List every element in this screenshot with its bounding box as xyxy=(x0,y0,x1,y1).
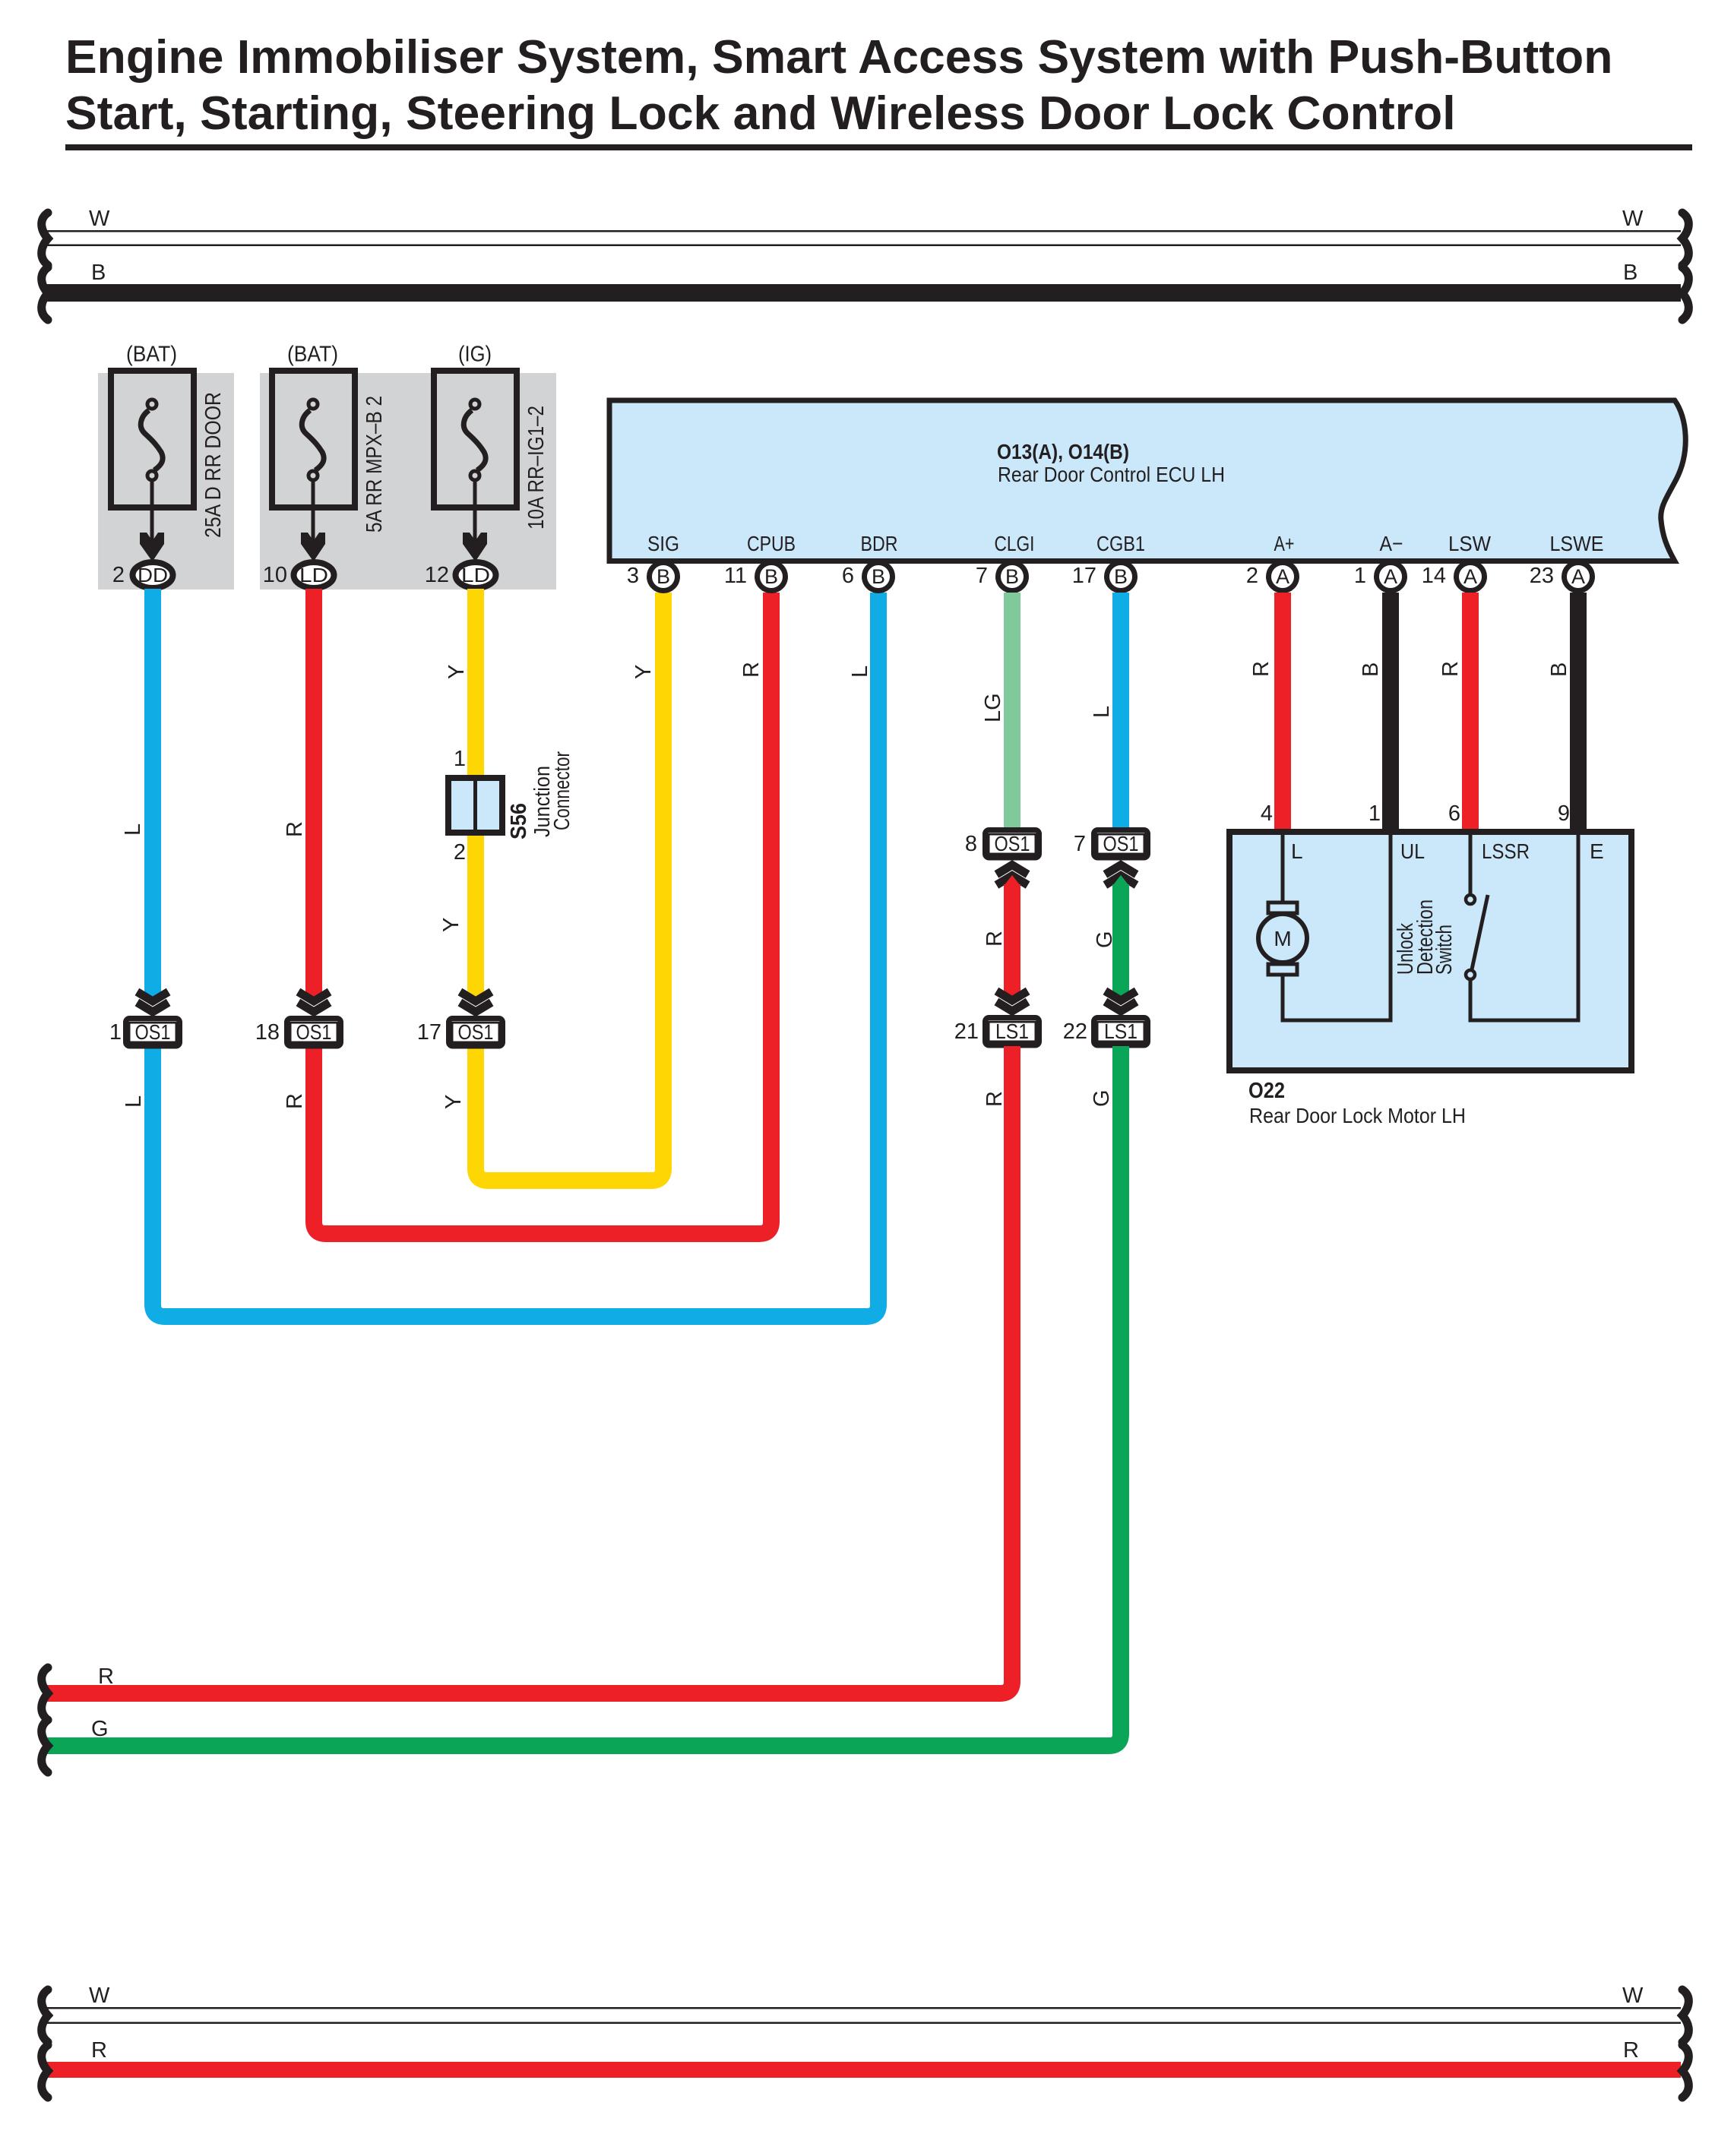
svg-text:A: A xyxy=(1463,565,1477,588)
svg-text:25A D RR DOOR: 25A D RR DOOR xyxy=(201,392,226,538)
wire G green OS1 7 to LS1 22 xyxy=(1112,875,1129,1002)
svg-text:CPUB: CPUB xyxy=(747,532,796,555)
wire B top xyxy=(46,284,1681,302)
pin 14 A LSW xyxy=(1422,563,1485,591)
fuse block background left xyxy=(98,373,234,590)
wire L blue from fuse1 to OS1 xyxy=(144,589,161,1003)
break symbol top-left B xyxy=(42,267,48,320)
svg-text:2: 2 xyxy=(454,840,466,865)
svg-text:7: 7 xyxy=(1074,832,1086,856)
break symbol top-right B xyxy=(1682,267,1688,320)
svg-text:Connector: Connector xyxy=(550,751,574,830)
svg-text:1: 1 xyxy=(109,1020,122,1045)
break symbol bottom-left W xyxy=(42,1990,48,2042)
svg-text:W: W xyxy=(89,1984,110,2008)
svg-text:2: 2 xyxy=(112,563,125,587)
pin 7 B CLGI xyxy=(976,563,1027,591)
svg-text:Rear Door Control ECU LH: Rear Door Control ECU LH xyxy=(998,463,1225,486)
svg-text:R: R xyxy=(1249,661,1274,677)
svg-text:W: W xyxy=(89,207,110,231)
svg-text:A: A xyxy=(1384,565,1397,588)
svg-text:Engine Immobiliser System, Sma: Engine Immobiliser System, Smart Access … xyxy=(65,30,1612,84)
svg-text:L: L xyxy=(1090,706,1114,718)
svg-text:O13(A), O14(B): O13(A), O14(B) xyxy=(997,440,1129,463)
svg-text:CGB1: CGB1 xyxy=(1096,532,1145,555)
connector 1 OS1 xyxy=(109,992,180,1047)
svg-text:9: 9 xyxy=(1558,801,1570,826)
svg-text:Y: Y xyxy=(445,665,469,679)
svg-text:22: 22 xyxy=(1063,1020,1087,1044)
svg-text:Switch: Switch xyxy=(1432,925,1457,975)
wire R red lower run to CPUB xyxy=(314,593,771,1234)
svg-text:Y: Y xyxy=(439,918,464,932)
svg-text:B: B xyxy=(1359,662,1383,677)
svg-text:OS1: OS1 xyxy=(296,1020,332,1044)
svg-text:G: G xyxy=(1093,931,1117,948)
svg-text:LS1: LS1 xyxy=(995,1020,1029,1043)
svg-text:SIG: SIG xyxy=(647,532,679,555)
svg-text:B: B xyxy=(764,565,778,588)
wire R red LSW to motor xyxy=(1462,593,1479,829)
fuse F3 10A RR-IG1-2 xyxy=(434,343,549,561)
svg-text:Start, Starting, Steering Lock: Start, Starting, Steering Lock and Wirel… xyxy=(65,87,1456,140)
svg-text:LSSR: LSSR xyxy=(1482,839,1530,863)
svg-text:LG: LG xyxy=(981,693,1005,722)
svg-text:G: G xyxy=(1090,1089,1114,1107)
svg-text:B: B xyxy=(91,261,106,285)
svg-text:R: R xyxy=(982,1091,1007,1107)
svg-text:6: 6 xyxy=(1448,801,1460,826)
svg-text:(BAT): (BAT) xyxy=(126,343,177,367)
svg-text:6: 6 xyxy=(842,564,854,588)
wire B black A- to motor xyxy=(1382,593,1399,829)
pin 1 A A- xyxy=(1354,563,1405,591)
svg-text:L: L xyxy=(848,665,872,678)
svg-text:B: B xyxy=(872,565,885,588)
svg-text:8: 8 xyxy=(965,832,977,856)
wire R red from fuse2 to OS1 xyxy=(305,589,322,1003)
svg-text:B: B xyxy=(1005,565,1019,588)
svg-text:OS1: OS1 xyxy=(1103,832,1139,855)
svg-text:B: B xyxy=(1623,261,1637,285)
wire pin6 LSSR to switch xyxy=(1469,832,1473,895)
break symbol bottom-right W xyxy=(1682,1990,1688,2042)
svg-text:DD: DD xyxy=(138,564,168,586)
pin 23 A LSWE xyxy=(1530,563,1593,591)
title xyxy=(65,30,1692,150)
wire Y yellow from fuse3 through S56 to OS1 xyxy=(467,589,484,1003)
svg-text:1: 1 xyxy=(1354,564,1366,588)
break symbol top-left W xyxy=(42,213,48,265)
svg-text:10A RR–IG1–2: 10A RR–IG1–2 xyxy=(524,406,549,530)
break symbol bottom-right R xyxy=(1682,2045,1688,2098)
wire Y yellow lower run to SIG xyxy=(476,593,663,1181)
motor box O22 Rear Door Lock Motor LH xyxy=(1229,801,1631,1070)
wire R red A+ to motor xyxy=(1274,593,1291,829)
wire motor bottom rail xyxy=(1281,1019,1393,1023)
connector 22 LS1 xyxy=(1063,991,1148,1046)
fuse block background right xyxy=(260,373,556,590)
svg-text:A+: A+ xyxy=(1274,532,1295,555)
connector 2 DD xyxy=(112,562,173,588)
svg-text:(IG): (IG) xyxy=(458,343,492,367)
wire L blue lower run to BDR xyxy=(153,593,878,1317)
svg-text:E: E xyxy=(1590,839,1604,863)
ECU box O13 O14 Rear Door Control ECU LH xyxy=(609,400,1685,561)
svg-text:LSWE: LSWE xyxy=(1550,532,1604,555)
wire pin4 L to motor xyxy=(1281,832,1285,904)
svg-text:S56: S56 xyxy=(507,803,531,839)
svg-text:11: 11 xyxy=(724,564,747,588)
connector 12 LD xyxy=(425,562,496,588)
svg-text:5A RR MPX–B 2: 5A RR MPX–B 2 xyxy=(362,396,387,533)
wire L from CGB1 to OS1 7 xyxy=(1112,593,1129,830)
wire W bottom xyxy=(46,2007,1681,2024)
wire rail to pin1 UL xyxy=(1389,832,1393,1023)
connector 21 LS1 xyxy=(954,991,1039,1046)
break symbol bottom-left R xyxy=(42,2045,48,2098)
svg-text:A−: A− xyxy=(1380,532,1403,555)
wire B black LSWE to motor xyxy=(1570,593,1587,829)
svg-text:7: 7 xyxy=(976,564,988,588)
svg-text:4: 4 xyxy=(1261,801,1273,826)
connector 17 OS1 xyxy=(417,992,503,1047)
svg-text:LD: LD xyxy=(299,564,328,586)
svg-text:Rear Door Lock Motor LH: Rear Door Lock Motor LH xyxy=(1249,1104,1466,1127)
svg-text:R: R xyxy=(91,2038,107,2063)
svg-text:10: 10 xyxy=(263,563,287,587)
wire R red LS1 21 down to bottom run xyxy=(47,1046,1012,1693)
wire G green LS1 22 down to bottom run xyxy=(47,1046,1121,1746)
svg-text:LD: LD xyxy=(461,564,490,586)
fuse F2 5A RR MPX-B 2 xyxy=(272,343,387,561)
break symbol R bottom-left xyxy=(42,1668,48,1720)
svg-text:W: W xyxy=(1622,1984,1644,2008)
svg-text:18: 18 xyxy=(255,1020,280,1045)
svg-text:R: R xyxy=(98,1664,114,1689)
svg-text:R: R xyxy=(982,931,1007,947)
svg-text:L: L xyxy=(1291,839,1303,863)
wire switch to bottom rail xyxy=(1469,979,1473,1023)
break symbol G bottom-left xyxy=(42,1720,48,1772)
svg-text:21: 21 xyxy=(954,1020,979,1044)
svg-text:1: 1 xyxy=(1369,801,1381,826)
svg-text:Y: Y xyxy=(631,665,656,679)
pin 2 A A+ xyxy=(1246,563,1297,591)
svg-text:B: B xyxy=(657,565,670,588)
svg-text:UL: UL xyxy=(1400,839,1425,863)
svg-text:OS1: OS1 xyxy=(135,1020,171,1044)
motor M xyxy=(1258,903,1307,975)
svg-text:A: A xyxy=(1571,565,1585,588)
wire R bottom xyxy=(46,2062,1681,2078)
svg-text:Y: Y xyxy=(441,1095,466,1109)
connector 18 OS1 xyxy=(255,992,341,1047)
svg-text:M: M xyxy=(1274,927,1291,950)
pin 3 B SIG xyxy=(627,563,678,591)
svg-text:L: L xyxy=(122,1095,146,1108)
svg-text:17: 17 xyxy=(1072,564,1096,588)
svg-text:CLGI: CLGI xyxy=(995,532,1035,555)
svg-text:LSW: LSW xyxy=(1448,532,1492,555)
pin 17 B CGB1 xyxy=(1072,563,1135,591)
svg-text:12: 12 xyxy=(425,563,449,587)
connector 10 LD xyxy=(263,562,334,588)
svg-text:R: R xyxy=(1623,2038,1639,2063)
svg-text:R: R xyxy=(283,1093,307,1109)
svg-text:O22: O22 xyxy=(1248,1079,1285,1103)
svg-text:W: W xyxy=(1622,207,1644,231)
svg-text:R: R xyxy=(283,821,307,837)
connector 7 OS1 xyxy=(1074,830,1148,886)
svg-text:BDR: BDR xyxy=(861,532,898,555)
svg-text:23: 23 xyxy=(1530,564,1554,588)
pin 6 B BDR xyxy=(842,563,893,591)
unlock detection switch xyxy=(1394,895,1488,979)
connector 8 OS1 xyxy=(965,830,1039,886)
fuse F1 25A D RR DOOR xyxy=(111,343,226,561)
svg-text:3: 3 xyxy=(627,564,639,588)
wire LG from CLGI to OS1 8 xyxy=(1004,593,1020,830)
wire R red OS1 8 to LS1 21 xyxy=(1004,875,1020,1002)
wire motor to bottom rail xyxy=(1281,973,1285,1023)
svg-text:LS1: LS1 xyxy=(1104,1020,1138,1043)
svg-text:B: B xyxy=(1547,662,1571,677)
svg-text:A: A xyxy=(1276,565,1289,588)
svg-text:17: 17 xyxy=(417,1020,441,1045)
wire switch bottom rail xyxy=(1469,1019,1581,1023)
svg-text:OS1: OS1 xyxy=(458,1020,494,1044)
svg-text:R: R xyxy=(1438,661,1463,677)
svg-text:R: R xyxy=(739,662,764,678)
svg-text:OS1: OS1 xyxy=(995,832,1030,855)
svg-text:(BAT): (BAT) xyxy=(287,343,338,367)
wire rail to pin9 E xyxy=(1577,832,1581,1023)
svg-text:B: B xyxy=(1114,565,1128,588)
svg-text:1: 1 xyxy=(454,747,466,771)
svg-text:L: L xyxy=(121,824,145,836)
svg-text:14: 14 xyxy=(1422,564,1446,588)
junction connector S56 xyxy=(448,747,574,865)
wire W top xyxy=(46,230,1681,246)
svg-text:G: G xyxy=(91,1717,109,1741)
pin 11 B CPUB xyxy=(724,563,786,591)
svg-text:2: 2 xyxy=(1246,564,1258,588)
break symbol top-right W xyxy=(1682,213,1688,265)
